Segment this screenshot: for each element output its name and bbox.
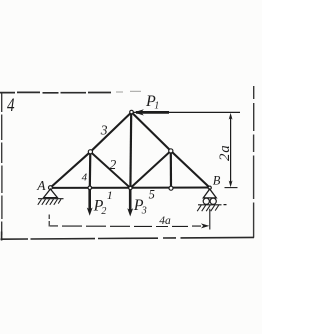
member: vertical post R-R' — [170, 151, 172, 188]
member 4: vertical post L-D — [89, 152, 92, 188]
load P1 arrow at apex — [132, 109, 241, 115]
node L — [88, 150, 92, 154]
dimension 2a vertical line with arrows — [225, 113, 238, 188]
svg-text:4a: 4a — [159, 215, 171, 227]
svg-text:5: 5 — [149, 187, 155, 201]
svg-text:2a: 2a — [217, 144, 233, 161]
svg-text:3: 3 — [100, 123, 108, 138]
node C — [129, 186, 132, 189]
label P3 — [133, 197, 147, 216]
dimension 4a horizontal dashed line with arrow — [49, 209, 210, 230]
member: centre vertical post T-C — [129, 113, 132, 189]
svg-text:A: A — [36, 178, 46, 193]
node D — [88, 186, 92, 190]
member: diagonal R-C — [130, 151, 170, 188]
label P1 — [145, 93, 159, 112]
frame left border — [1, 94, 3, 236]
svg-text:B: B — [213, 174, 221, 188]
member 3: left top chord A-L-T — [50, 112, 131, 187]
svg-text:4: 4 — [7, 95, 15, 116]
member 2: diagonal L-C — [90, 152, 130, 188]
member: right top chord T-R-B — [132, 112, 210, 187]
svg-text:2: 2 — [110, 157, 117, 172]
node B — [208, 186, 211, 189]
member: bottom chord A-B — [48, 187, 210, 189]
frame bottom border — [1, 232, 255, 241]
svg-text:1: 1 — [107, 188, 113, 202]
load P3 arrow — [127, 189, 133, 217]
node R' — [169, 186, 173, 190]
node A — [49, 186, 53, 190]
svg-text:4: 4 — [82, 171, 88, 183]
svg-text:1: 1 — [154, 101, 159, 112]
node T apex — [130, 110, 134, 114]
svg-text:2: 2 — [101, 206, 106, 217]
roller support at B — [197, 189, 226, 211]
node R — [169, 149, 173, 153]
frame top border — [0, 91, 141, 92]
pin support at A — [38, 189, 64, 205]
label P2 — [93, 198, 107, 217]
svg-text:3: 3 — [141, 205, 147, 216]
frame right border — [253, 86, 255, 238]
load P2 arrow — [87, 189, 93, 216]
